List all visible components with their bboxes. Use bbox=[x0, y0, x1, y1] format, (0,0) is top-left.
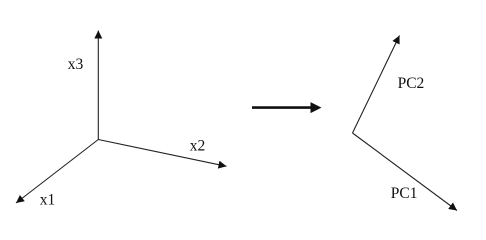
axis x2 bbox=[98, 140, 226, 167]
svg-text:x3: x3 bbox=[68, 56, 84, 73]
svg-text:PC1: PC1 bbox=[391, 185, 418, 202]
svg-text:x1: x1 bbox=[40, 192, 56, 209]
axis PC2 bbox=[353, 36, 400, 134]
axis PC1 bbox=[353, 133, 458, 211]
svg-text:x2: x2 bbox=[190, 138, 206, 155]
axis x1 bbox=[16, 140, 98, 204]
axis x3 bbox=[97, 31, 99, 140]
transform arrow bbox=[252, 102, 322, 113]
svg-text:PC2: PC2 bbox=[398, 75, 425, 92]
